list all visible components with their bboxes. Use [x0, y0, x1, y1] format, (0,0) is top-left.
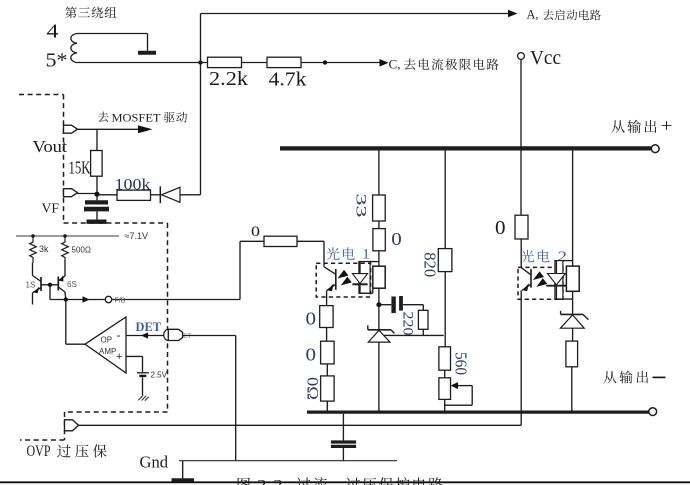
wire 100k to diode: [151, 194, 161, 196]
svg-text:+: +: [116, 351, 122, 363]
opto1 light arrows: [338, 270, 349, 279]
wire noninverting input: [126, 355, 143, 357]
caption text: [238, 478, 250, 485]
resistor (opto2 bottom): [566, 341, 578, 367]
resistor 820: [438, 249, 452, 272]
resistor 0 (opto2 pullup): [515, 215, 528, 239]
node cap junction: [376, 302, 381, 307]
svg-text:33: 33: [353, 194, 369, 218]
wire zener to bus-: [378, 342, 380, 410]
Vcc terminal: [518, 53, 525, 60]
resistor 0 chain a: [320, 306, 333, 328]
svg-text:Gnd: Gnd: [140, 453, 169, 472]
node rail-3k: [31, 234, 35, 238]
node on C wire: [323, 60, 327, 64]
label opto 2: [521, 250, 534, 263]
svg-text:6S: 6S: [67, 280, 77, 289]
wire to opto1 via 0 resistor: [240, 240, 264, 242]
zener ZD2: [560, 311, 562, 315]
opto1 LED top link: [359, 261, 379, 263]
opto2 LED: [555, 261, 557, 274]
svg-text:820: 820: [420, 252, 439, 277]
wire winding top drop to ground: [147, 34, 149, 51]
wire zener top: [378, 305, 380, 330]
ground (winding): [138, 51, 156, 55]
wire Q2 collector to opamp: [65, 300, 67, 345]
transistor Q1: [32, 263, 34, 276]
wire 0 to opto2 collector: [520, 239, 522, 268]
svg-text:ET: ET: [183, 333, 191, 340]
svg-text:-: -: [117, 328, 121, 342]
wire bus+ drop to opto2 led: [572, 151, 574, 267]
wire opto2 emitter to OVP line: [520, 291, 522, 426]
wire node to 100k: [97, 194, 117, 196]
DET terminal connector: [164, 329, 173, 340]
resistor 560: [439, 347, 451, 370]
svg-text:DET: DET: [136, 320, 162, 334]
arrow DET (left): [141, 332, 148, 338]
wire Vout to MOSFET drive: [78, 128, 139, 130]
opto1 LED bottom link: [359, 292, 373, 294]
arrow to A: [508, 10, 518, 17]
svg-text:VF: VF: [42, 202, 60, 217]
wire OVP to opto2 emitter: [79, 424, 522, 426]
svg-text:F/B: F/B: [115, 298, 126, 305]
opto2 phototransistor: [521, 268, 531, 275]
wire winding bottom to junction: [77, 62, 208, 64]
wire 33-0: [378, 221, 380, 229]
svg-text:2.2k: 2.2k: [209, 68, 249, 90]
svg-text:C,: C,: [389, 56, 401, 71]
resistor 0 (opto1 anode): [373, 229, 385, 251]
svg-text:0: 0: [251, 224, 260, 240]
svg-text:OP: OP: [101, 336, 113, 345]
svg-text:220: 220: [400, 312, 416, 336]
opto2 LED box: [555, 261, 563, 300]
opto2 LED top link: [563, 260, 573, 262]
wire junction down to 15K: [96, 129, 98, 150]
wire between 2.2k 4.7k: [242, 62, 268, 64]
wire DET to down-drop: [183, 335, 236, 337]
svg-text:1S: 1S: [26, 281, 36, 290]
label from-output+: [612, 120, 625, 133]
wire zener2 to resistor: [572, 328, 574, 341]
svg-text:560: 560: [452, 352, 471, 375]
svg-text:0: 0: [391, 229, 402, 249]
resistor parallel opto1: [373, 266, 385, 288]
caption rule: [0, 481, 690, 483]
wire 220/820 bottom link: [384, 334, 444, 336]
gnd rail: [179, 460, 397, 462]
svg-text:5*: 5*: [46, 50, 68, 72]
wire 0 to LED node: [378, 251, 380, 266]
opto1 phototransistor: [323, 241, 325, 266]
ground (2.5V ref): [138, 395, 148, 400]
bus from-output- (thick): [307, 411, 649, 414]
wire to ref ground: [142, 377, 144, 395]
svg-text:A,: A,: [527, 7, 539, 22]
resistor 100k: [117, 190, 151, 200]
resistor 0ohm chain c: [321, 376, 335, 401]
pin VF connector: [64, 189, 78, 197]
wire to bus-: [571, 367, 573, 411]
node rail-500: [63, 234, 67, 238]
wire DET drop to gnd rail: [235, 336, 237, 461]
resistor 15K: [91, 151, 103, 177]
IC dashed boundary: [19, 94, 64, 96]
svg-text:100k: 100k: [115, 177, 151, 194]
reference 2.5V battery: [137, 372, 149, 374]
opto1 LED: [359, 262, 361, 274]
svg-text:AMP: AMP: [99, 347, 116, 356]
wire LED node down: [378, 288, 380, 305]
wire 4.7k to C: [301, 62, 380, 64]
capacitor C (output): [331, 440, 356, 443]
resistor 0 (opto1 collector): [264, 236, 297, 246]
rail 7.1V: [16, 235, 119, 237]
svg-text:3k: 3k: [39, 244, 49, 254]
capacitor C (opto1): [379, 304, 391, 306]
wire base down to FB line: [49, 285, 51, 300]
svg-text:Vout: Vout: [33, 137, 68, 156]
wire diode to vertical: [180, 194, 201, 196]
opto2 dashed box: [518, 267, 563, 299]
wire bus- to cap: [342, 414, 344, 441]
wire bus+ drop to 33: [378, 151, 380, 196]
ground (VF cap): [87, 219, 107, 223]
svg-text:OVP: OVP: [27, 443, 51, 460]
transistor Q2: [64, 260, 66, 276]
opto1 dashed box: [316, 263, 370, 297]
transformer third winding label: [65, 7, 77, 19]
bus from-output+ (thick): [280, 146, 651, 150]
zener ZD1: [367, 325, 369, 330]
svg-text:1: 1: [362, 247, 370, 263]
diode D1: [159, 186, 161, 203]
resistor 33: [373, 195, 386, 221]
label to MOSFET drive: [98, 112, 109, 122]
resistor 500ohm zigzag: [62, 236, 69, 260]
pin OVP connector: [65, 420, 79, 431]
wire pot to bus-: [444, 399, 446, 410]
svg-text:2.5V: 2.5V: [151, 371, 168, 380]
wire FB up to 0 resistor: [239, 241, 241, 299]
arrow to C: [380, 59, 389, 67]
resistor 0 chain b: [321, 341, 335, 364]
potentiometer VR1: [439, 378, 451, 400]
node junction at 2.2k: [198, 60, 202, 64]
svg-text:+: +: [661, 115, 673, 135]
wire FB line: [50, 299, 240, 301]
wire vertical main left drop: [200, 14, 202, 195]
label opto 1: [326, 247, 339, 260]
node VF junction: [94, 192, 99, 197]
svg-text:4: 4: [47, 21, 59, 43]
resistor 2.2k: [208, 57, 242, 67]
arrow on FB line: [83, 296, 90, 303]
FB terminal circle: [105, 296, 111, 302]
opto2 LED bottom link: [555, 298, 573, 300]
svg-text:0: 0: [495, 217, 506, 239]
wire cap to 220: [422, 305, 424, 311]
opto2 light arrows: [533, 271, 544, 280]
wire 560 to pot: [444, 370, 446, 378]
resistor 220: [418, 310, 428, 329]
svg-text:Vcc: Vcc: [530, 47, 561, 69]
wire gnd stub: [182, 461, 184, 479]
ground (main): [172, 478, 195, 482]
svg-text:0: 0: [306, 345, 317, 365]
wire bus+ drop to 820: [444, 151, 446, 249]
svg-text:0Ω: 0Ω: [303, 377, 320, 400]
wire 15K to VF node: [96, 176, 98, 194]
wire DET inverting input: [126, 335, 164, 337]
wire VF to node: [78, 193, 98, 195]
op-amp U1: [85, 317, 126, 373]
svg-text:2-2: 2-2: [257, 478, 283, 485]
wire base link: [41, 284, 58, 286]
svg-text:0: 0: [306, 309, 317, 329]
svg-text:≈7.1V: ≈7.1V: [125, 231, 148, 241]
wire to A startup: [201, 13, 510, 15]
resistor 4.7k: [267, 57, 301, 67]
resistor 3k zigzag: [30, 236, 37, 263]
opto1 LED box: [359, 262, 370, 294]
svg-text:MOSFET: MOSFET: [112, 112, 161, 124]
wire 820 to 560: [444, 272, 446, 347]
wire to zener2: [572, 291, 574, 314]
pin Vout connector: [64, 125, 78, 133]
capacitor at VF node: [96, 194, 98, 200]
label from-output-: [603, 371, 616, 383]
wire winding top: [77, 33, 148, 35]
wire Vcc down to opto2 pullup: [520, 59, 522, 215]
svg-text:4.7k: 4.7k: [269, 68, 308, 90]
resistor parallel opto2: [566, 266, 579, 291]
arrow MOSFET drive: [138, 125, 153, 133]
svg-text:500Ω: 500Ω: [72, 246, 91, 255]
svg-text:15K: 15K: [69, 158, 91, 178]
winding L1 coil: [71, 34, 77, 63]
